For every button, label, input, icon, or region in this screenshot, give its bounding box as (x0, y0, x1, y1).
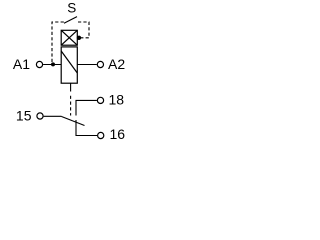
svg-text:15: 15 (16, 108, 32, 124)
svg-text:S: S (67, 0, 76, 15)
svg-text:16: 16 (110, 126, 126, 142)
svg-text:A2: A2 (108, 56, 125, 72)
svg-text:18: 18 (109, 92, 125, 108)
svg-text:A1: A1 (13, 56, 30, 72)
